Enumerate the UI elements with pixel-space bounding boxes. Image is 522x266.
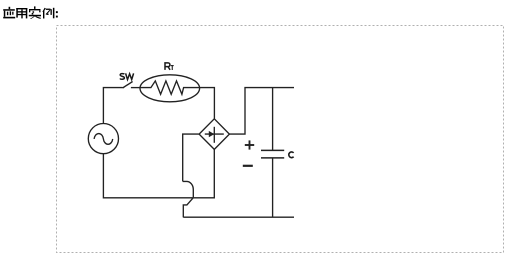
switch SW blade (123, 82, 133, 89)
wire: source top to switch (103, 88, 122, 124)
bridge rectifier D1 (199, 119, 229, 150)
glyph 实 (34, 6, 36, 8)
full-width colon (56, 11, 58, 13)
thermistor RT (140, 75, 200, 102)
wire: switch to thermistor (131, 87, 140, 89)
wire: source bottom AC return to bridge bottom (103, 149, 214, 197)
wire hop over AC return (183, 181, 194, 197)
glyph 例 (42, 8, 45, 12)
label RT (165, 63, 170, 70)
label SW (120, 73, 134, 79)
capacitor C plates (261, 150, 284, 158)
title text 应用实例： (3, 6, 58, 19)
label C (289, 152, 294, 158)
AC source G1 (88, 124, 118, 154)
glyph 用 (16, 8, 18, 18)
wire: thermistor to bridge AC top (199, 88, 214, 119)
wire: capacitor branch from top rail (272, 88, 274, 151)
wire: bridge − output, left then down (183, 134, 199, 181)
wire: capacitor bottom to bottom rail (272, 158, 274, 217)
wire: bottom rail (183, 216, 294, 218)
label − (243, 165, 253, 167)
wire: bridge + output to top rail (229, 88, 294, 135)
label + (245, 140, 254, 149)
wire: hop to bottom rail (183, 198, 193, 218)
glyph 应 (9, 7, 11, 9)
